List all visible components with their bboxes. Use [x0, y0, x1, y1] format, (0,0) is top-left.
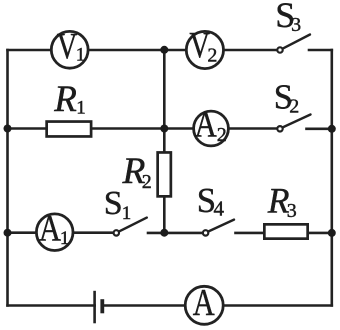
svg-text:3: 3 [291, 14, 301, 36]
svg-text:2: 2 [207, 45, 217, 67]
wire middle vertical upper [163, 50, 166, 152]
switch S4 [203, 220, 234, 236]
label S1 [104, 185, 132, 224]
junction node right row3 [328, 229, 336, 237]
label R3 [267, 181, 297, 223]
voltmeter V1 [51, 27, 88, 68]
switch S1 [114, 218, 147, 236]
resistor R2 [158, 152, 171, 196]
wire row1 S3 contact [309, 49, 332, 52]
wire row2 left to R1 [8, 127, 47, 130]
svg-text:A: A [195, 105, 218, 145]
svg-text:2: 2 [142, 171, 152, 193]
wire row2 S2 contact [307, 128, 332, 131]
junction node right row2 [328, 125, 336, 133]
svg-text:3: 3 [287, 200, 297, 222]
wire row3 left to A1 [8, 231, 37, 234]
svg-text:R: R [53, 79, 77, 120]
svg-text:2: 2 [217, 124, 227, 146]
svg-text:1: 1 [60, 228, 70, 249]
svg-text:S: S [104, 185, 123, 222]
svg-text:2: 2 [289, 96, 299, 118]
svg-text:1: 1 [122, 203, 132, 224]
ammeter A [185, 282, 223, 324]
switch S2 [277, 115, 310, 132]
wire row3 A1 to S1 [73, 231, 113, 234]
junction node left row2 [4, 125, 12, 133]
voltmeter V2 [186, 26, 223, 68]
wire left border [6, 50, 9, 306]
wire row1 V2 to S3 [224, 49, 277, 52]
switch S3 [277, 35, 310, 53]
wire row3 junction to S4 [164, 232, 202, 235]
wire row3 R3 to right border [309, 232, 332, 235]
label S2 [274, 79, 299, 118]
wire right border [330, 50, 333, 306]
wire ammeter A to right border [223, 304, 332, 307]
battery long plate [93, 291, 96, 324]
wire row1 left segment [8, 49, 53, 52]
ammeter A2 [194, 105, 229, 146]
label R2 [122, 151, 152, 193]
svg-text:A: A [193, 282, 215, 324]
wire battery to ammeter A [102, 304, 185, 307]
wire row1 V1 to V2 [88, 49, 186, 52]
wire bottom left to battery [8, 304, 95, 307]
resistor R1 [47, 122, 91, 137]
svg-text:4: 4 [214, 197, 225, 221]
svg-text:1: 1 [76, 98, 86, 119]
junction node top middle [160, 46, 168, 54]
svg-text:A: A [39, 209, 61, 250]
wire middle vertical lower [163, 198, 166, 233]
battery short plate [100, 299, 104, 313]
junction node middle row3 [160, 229, 168, 237]
wire row3 S1 contact to junction [148, 232, 164, 235]
label S3 [275, 0, 301, 36]
wire row2 R1 to A2 [91, 127, 194, 130]
wire row2 A2 to S2 [228, 127, 277, 130]
svg-text:1: 1 [76, 45, 86, 66]
label S4 [197, 181, 225, 221]
label R1 [53, 79, 86, 120]
junction node left row3 [4, 229, 12, 237]
ammeter A1 [36, 209, 73, 251]
resistor R3 [264, 224, 307, 238]
wire row3 S4 contact to R3 [236, 232, 264, 235]
junction node middle row2 [160, 125, 168, 133]
svg-text:V: V [57, 27, 78, 67]
